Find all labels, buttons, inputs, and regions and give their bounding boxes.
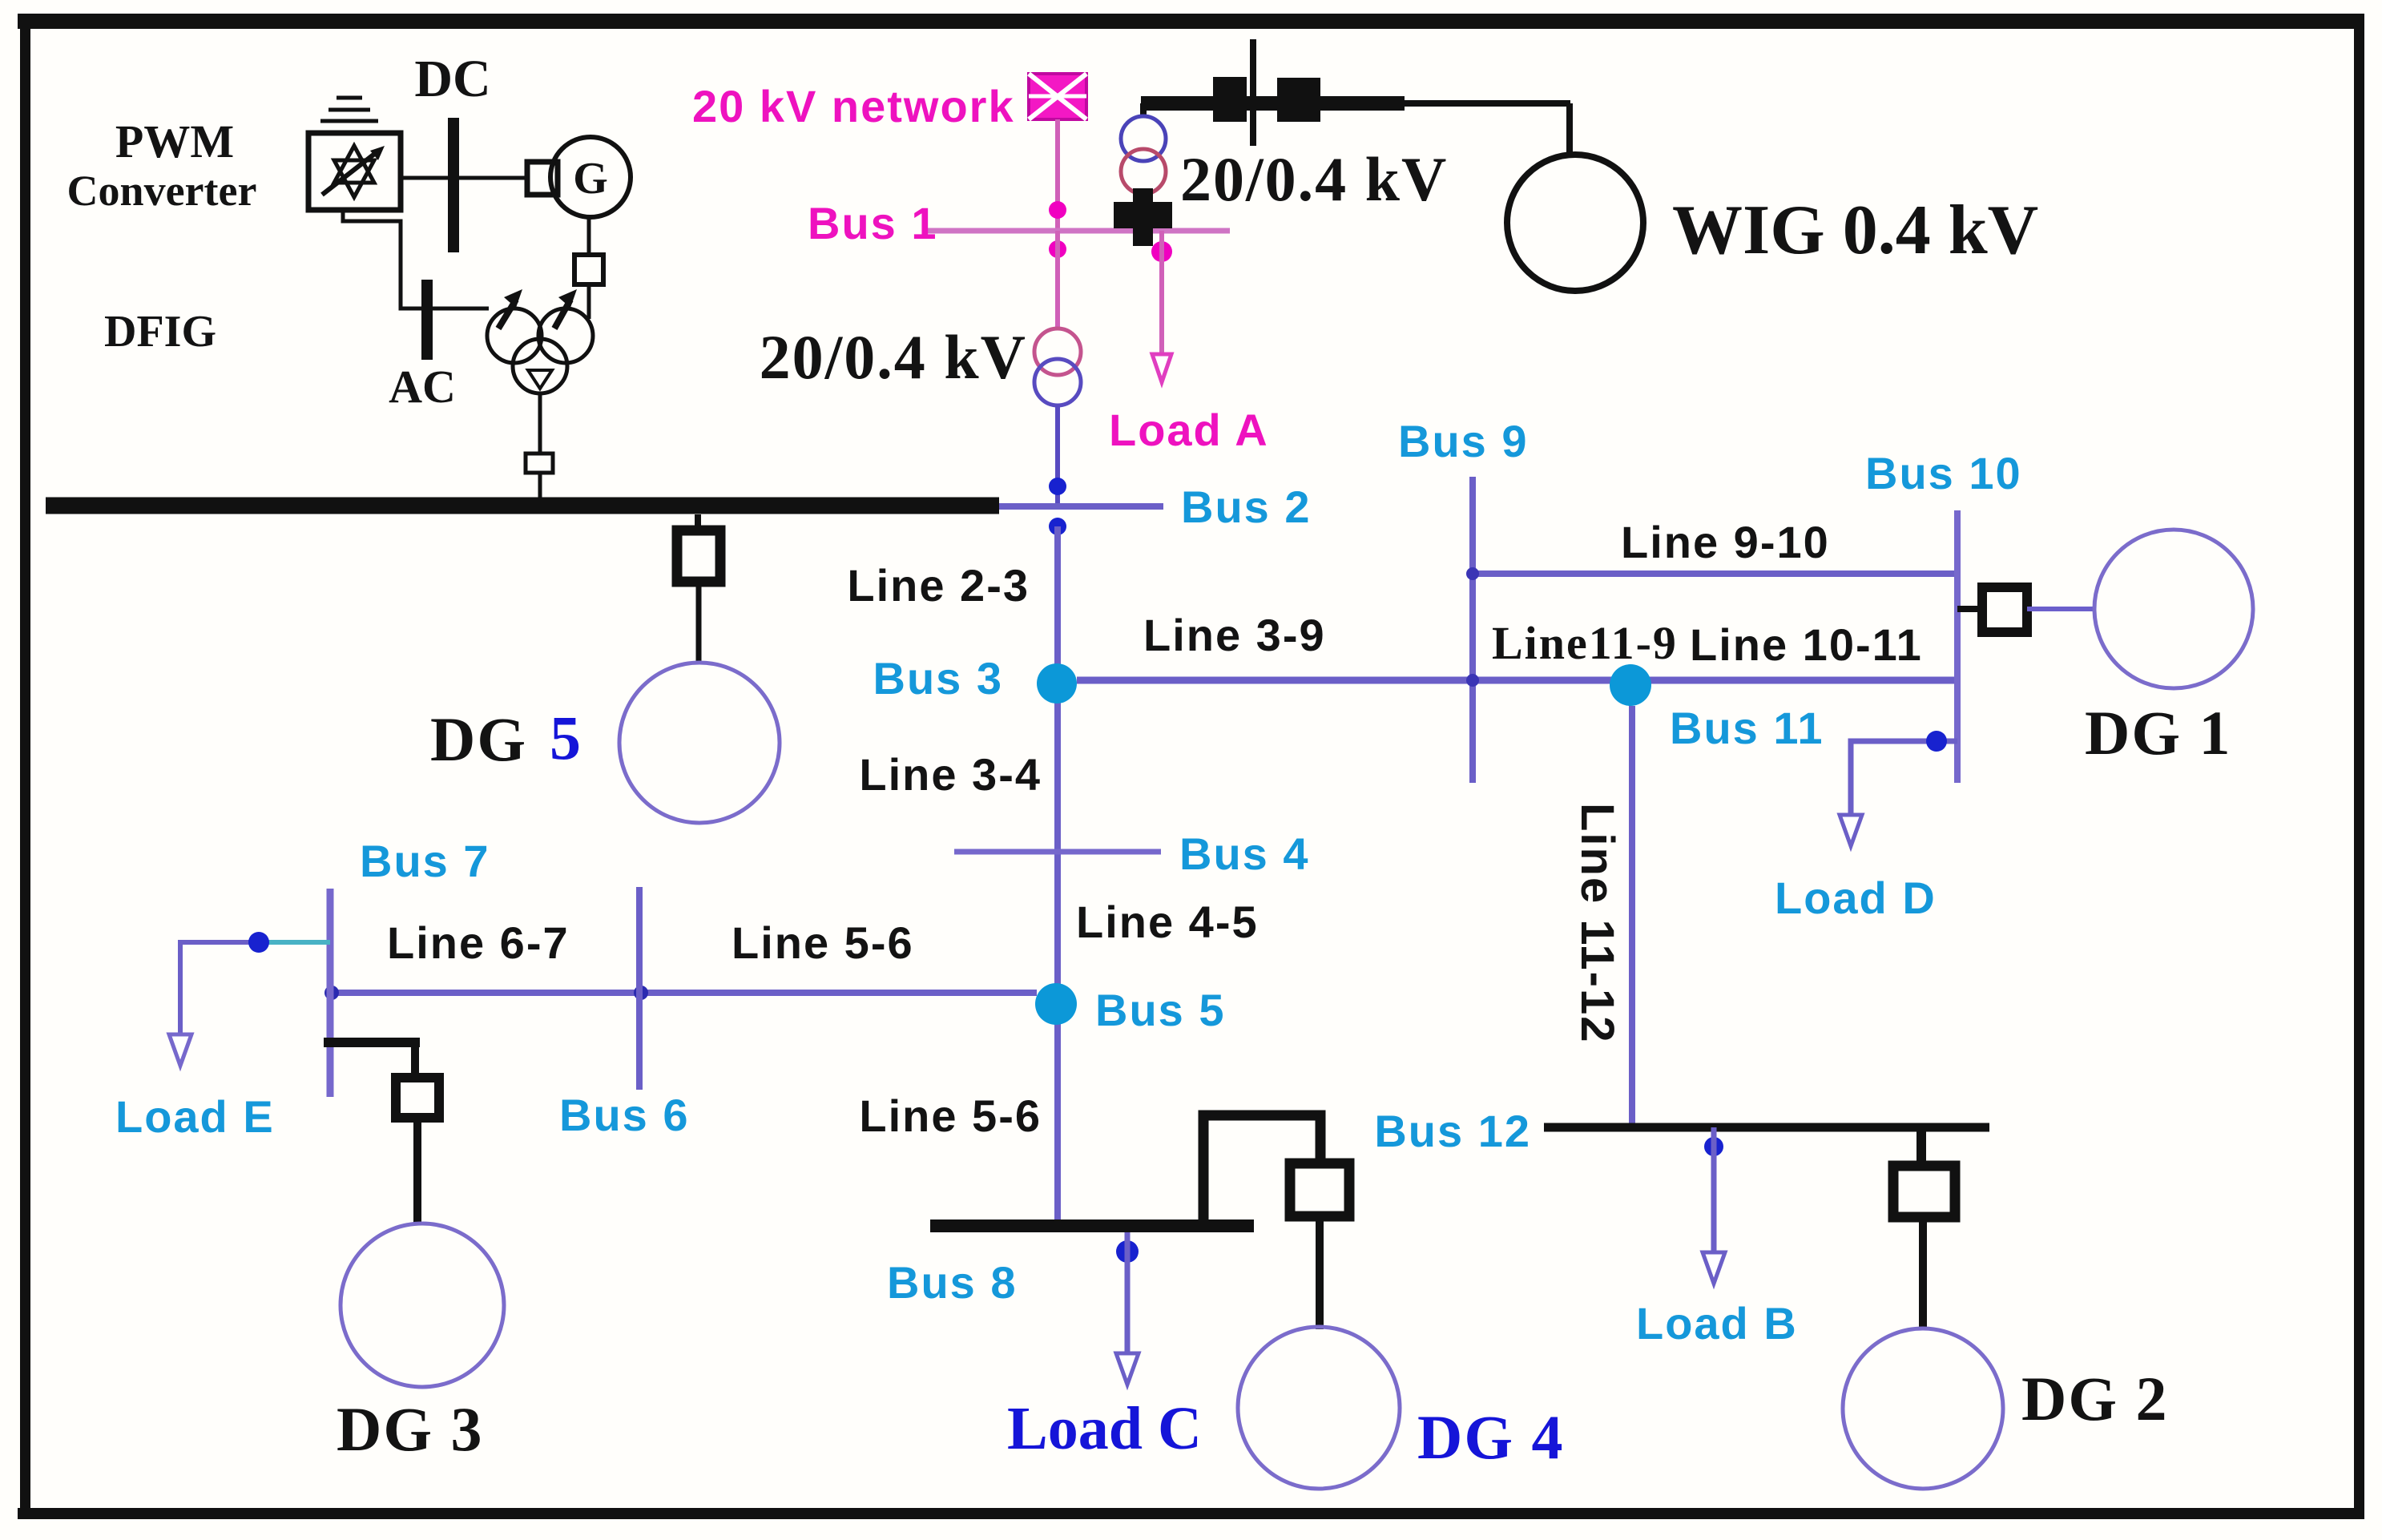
label Line 2-3 [847,560,1030,611]
wire machine to main bus [538,473,542,500]
label Load A [1109,405,1269,455]
Load D stub wire [1851,741,1957,814]
svg-text:Line 4-5: Line 4-5 [1076,897,1259,947]
label Line 11-12 rotated [1571,803,1623,1043]
svg-text:PWM: PWM [115,115,234,167]
svg-text:Bus 7: Bus 7 [360,836,490,886]
svg-text:5: 5 [550,703,581,772]
svg-text:Line 3-9: Line 3-9 [1143,610,1326,660]
wire to DFIG machine [587,284,591,319]
DG4 black tap structure [1203,1115,1320,1228]
Bus 12 busbar [1544,1123,1989,1132]
label Converter [67,167,257,215]
node dot above Bus 1 [1049,201,1066,219]
DG1 generator circle [2094,530,2253,688]
wind feeder thick line [1141,96,1405,111]
junction dot Line 3-9 at Bus 9 [1466,674,1479,687]
DG2 wire [1919,1217,1927,1329]
border frame left [20,14,30,1519]
label Line 10-11 [1690,619,1923,670]
wire Bus 1 to transformer T1 [1055,231,1060,330]
Line 9-10 wire [1473,570,1957,577]
Bus 9 busbar [1469,477,1476,783]
feeder Bus 2 to Bus 8 vertical [1054,526,1061,1221]
svg-text:Bus 6: Bus 6 [559,1090,690,1140]
label 20/0.4 kV left [760,322,1027,392]
svg-text:Bus 4: Bus 4 [1179,828,1310,879]
20 kV network source box [1029,74,1086,119]
Line 11-12 wire [1629,706,1635,1127]
svg-text:DG: DG [430,704,527,774]
svg-text:Line 6-7: Line 6-7 [387,917,570,968]
label DG 5 [430,703,581,774]
label 20 kV network [692,81,1015,131]
label AC [389,361,456,413]
Bus 7 busbar [327,889,334,1097]
svg-text:Line 2-3: Line 2-3 [847,560,1030,611]
border frame bottom [18,1508,2364,1519]
junction dot Line 9-10 at Bus 9 [1466,567,1479,580]
Bus 5 node [1035,983,1077,1025]
svg-text:Converter: Converter [67,167,257,215]
svg-text:DG 3: DG 3 [337,1394,484,1464]
connector fuse below machine [526,454,553,473]
label Bus 1 [808,198,938,248]
label DG 2 [2021,1364,2169,1433]
DG3 breaker square [396,1078,439,1118]
Load A wire [1159,231,1164,353]
AC bus bar [421,280,433,360]
label Load E [115,1091,275,1142]
svg-text:Bus 9: Bus 9 [1398,416,1529,466]
label Bus 4 [1179,828,1310,879]
wire T1 to Bus 2 [1055,405,1060,506]
label Bus 12 [1374,1106,1531,1156]
label PWM [115,115,234,167]
svg-text:Line 5-6: Line 5-6 [732,917,914,968]
DG1 stub [1957,606,1982,612]
svg-text:Bus 2: Bus 2 [1181,482,1312,532]
border frame right [2354,14,2364,1519]
svg-text:Bus 12: Bus 12 [1374,1106,1531,1156]
svg-text:20/0.4 kV: 20/0.4 kV [1180,144,1448,214]
Load D arrowhead [1840,815,1862,846]
svg-text:Load A: Load A [1109,405,1269,455]
DG4 breaker square [1290,1163,1349,1216]
DG5 breaker stub [695,514,701,530]
junction dot Bus 6 [634,986,648,1000]
svg-text:Bus 8: Bus 8 [887,1257,1018,1308]
DFIG machine M1 [487,289,593,393]
Load C wire [1125,1232,1131,1353]
Bus 10 busbar [1954,510,1961,783]
label Bus 8 [887,1257,1018,1308]
svg-text:Bus 10: Bus 10 [1865,448,2022,498]
label DG 4 [1417,1402,1565,1472]
Bus 1 busbar [928,228,1230,234]
label Line 5-6 lower [859,1090,1042,1141]
Bus 11 node [1610,664,1651,706]
Load B wire [1711,1127,1717,1252]
border frame top [18,14,2364,29]
Bus 8 busbar [930,1220,1254,1232]
transformer T2 20/0.4 kV [1121,116,1166,194]
label Load D [1775,873,1937,923]
svg-text:Load B: Load B [1636,1298,1798,1349]
svg-text:Load C: Load C [1007,1395,1202,1462]
label DFIG [104,307,216,357]
Load C arrowhead [1116,1353,1139,1385]
svg-text:Line 11-12: Line 11-12 [1571,803,1623,1043]
Load D node dot [1926,731,1947,752]
label DC [414,50,490,108]
label Line 9-10 [1621,517,1830,567]
svg-text:G: G [573,154,608,204]
svg-text:Bus 5: Bus 5 [1095,985,1226,1035]
wire DFIG machine down [538,393,542,454]
svg-text:20/0.4 kV: 20/0.4 kV [760,322,1027,392]
wire PWM box to AC bus L-shape [343,210,489,308]
label Bus 3 [873,653,1004,703]
DG2 breaker square [1893,1166,1955,1217]
Load A node dot [1151,241,1172,262]
label Bus 10 [1865,448,2022,498]
Line 5-6 / 6-7 horizontal wire [330,990,1037,996]
Bus 2 busbar [999,503,1163,510]
label Line 6-7 [387,917,570,968]
breaker square right [1277,78,1320,122]
svg-text:AC: AC [389,361,456,413]
DG3 black tap [324,1038,420,1047]
svg-text:DG 2: DG 2 [2021,1364,2169,1433]
svg-text:DG 4: DG 4 [1417,1402,1565,1472]
breaker square at generator G [527,162,558,195]
Load E wire teal segment [259,940,330,945]
earthing cross [1114,188,1172,246]
label DG 1 [2085,698,2232,768]
Bus 4 busbar [954,849,1161,855]
label Bus 5 [1095,985,1226,1035]
svg-text:WIG 0.4 kV: WIG 0.4 kV [1672,191,2038,269]
svg-text:Line 9-10: Line 9-10 [1621,517,1830,567]
wire PWM box to DC bus [401,176,527,180]
svg-text:Bus 3: Bus 3 [873,653,1004,703]
svg-text:Line11-9: Line11-9 [1492,617,1678,669]
label Line 5-6 [732,917,914,968]
svg-text:Line 5-6: Line 5-6 [859,1090,1042,1141]
transformer T1 20/0.4 kV [1034,329,1081,405]
Load E wire purple segment [180,942,259,1034]
svg-text:Load E: Load E [115,1091,275,1142]
Load B node dot [1704,1137,1723,1156]
svg-text:Bus 11: Bus 11 [1670,703,1824,753]
svg-text:Line 10-11: Line 10-11 [1690,619,1923,670]
svg-text:DFIG: DFIG [104,307,216,357]
generator G circle [550,137,631,217]
DG3 stub [411,1042,419,1078]
svg-text:DC: DC [414,50,490,108]
DG2 stub [1916,1127,1926,1166]
wire G down [587,217,591,255]
node dot below Bus 1 [1049,240,1066,258]
svg-text:Bus 1: Bus 1 [808,198,938,248]
DG4 wire [1316,1216,1324,1329]
DG1 wire [2027,607,2094,611]
DG3 wire [413,1118,421,1224]
junction dot Bus 7 [324,986,339,1000]
DG5 generator circle [619,663,780,823]
label Load C [1007,1395,1202,1462]
wind feeder thin line [1405,100,1570,107]
connector square below G [574,255,603,284]
main thick busbar [46,498,999,514]
DG2 generator circle [1843,1328,2003,1489]
label 20/0.4 kV right [1180,144,1448,214]
label Bus 7 [360,836,490,886]
DG5 breaker square [677,530,720,582]
label Load B [1636,1298,1798,1349]
breaker isolator bar [1250,39,1256,146]
label Bus 11 [1670,703,1824,753]
label Bus 6 [559,1090,690,1140]
DG4 generator circle [1238,1327,1400,1489]
DC bus bar [448,118,459,252]
breaker square left [1213,77,1247,122]
DG5 wire [696,582,702,663]
label Bus 2 [1181,482,1312,532]
svg-text:Line 3-4: Line 3-4 [859,749,1042,800]
Load B arrowhead [1703,1252,1725,1284]
svg-text:DG 1: DG 1 [2085,698,2232,768]
Bus 3 node [1037,663,1077,703]
node dot below Bus 2 [1049,518,1066,535]
label WIG 0.4 kV [1672,191,2038,269]
Load E node dot [248,932,269,953]
label DG 3 [337,1394,484,1464]
wire network box to Bus 1 [1055,119,1060,231]
label Bus 9 [1398,416,1529,466]
capacitor C1 DC-link stack [320,98,378,121]
svg-text:Load D: Load D [1775,873,1937,923]
label Line 3-4 [859,749,1042,800]
label Line 3-9 [1143,610,1326,660]
Load C node dot [1116,1240,1139,1263]
PWM converter box U1 [308,133,401,210]
stub to transformer T2 [1140,103,1147,117]
Bus 6 busbar [636,887,643,1090]
node dot above Bus 2 [1049,478,1066,495]
svg-text:20 kV network: 20 kV network [692,81,1015,131]
WIG generator circle [1507,155,1643,291]
DG3 generator circle [341,1224,504,1387]
label Line 4-5 [1076,897,1259,947]
wire corner down to WIG [1566,103,1573,155]
label Line11-9 [1492,617,1678,669]
DG1 breaker square [1982,587,2027,632]
Load A arrowhead [1152,354,1171,382]
Load E arrowhead [169,1034,191,1066]
Line 3-9 / Line 10-11 wire [1077,677,1957,684]
